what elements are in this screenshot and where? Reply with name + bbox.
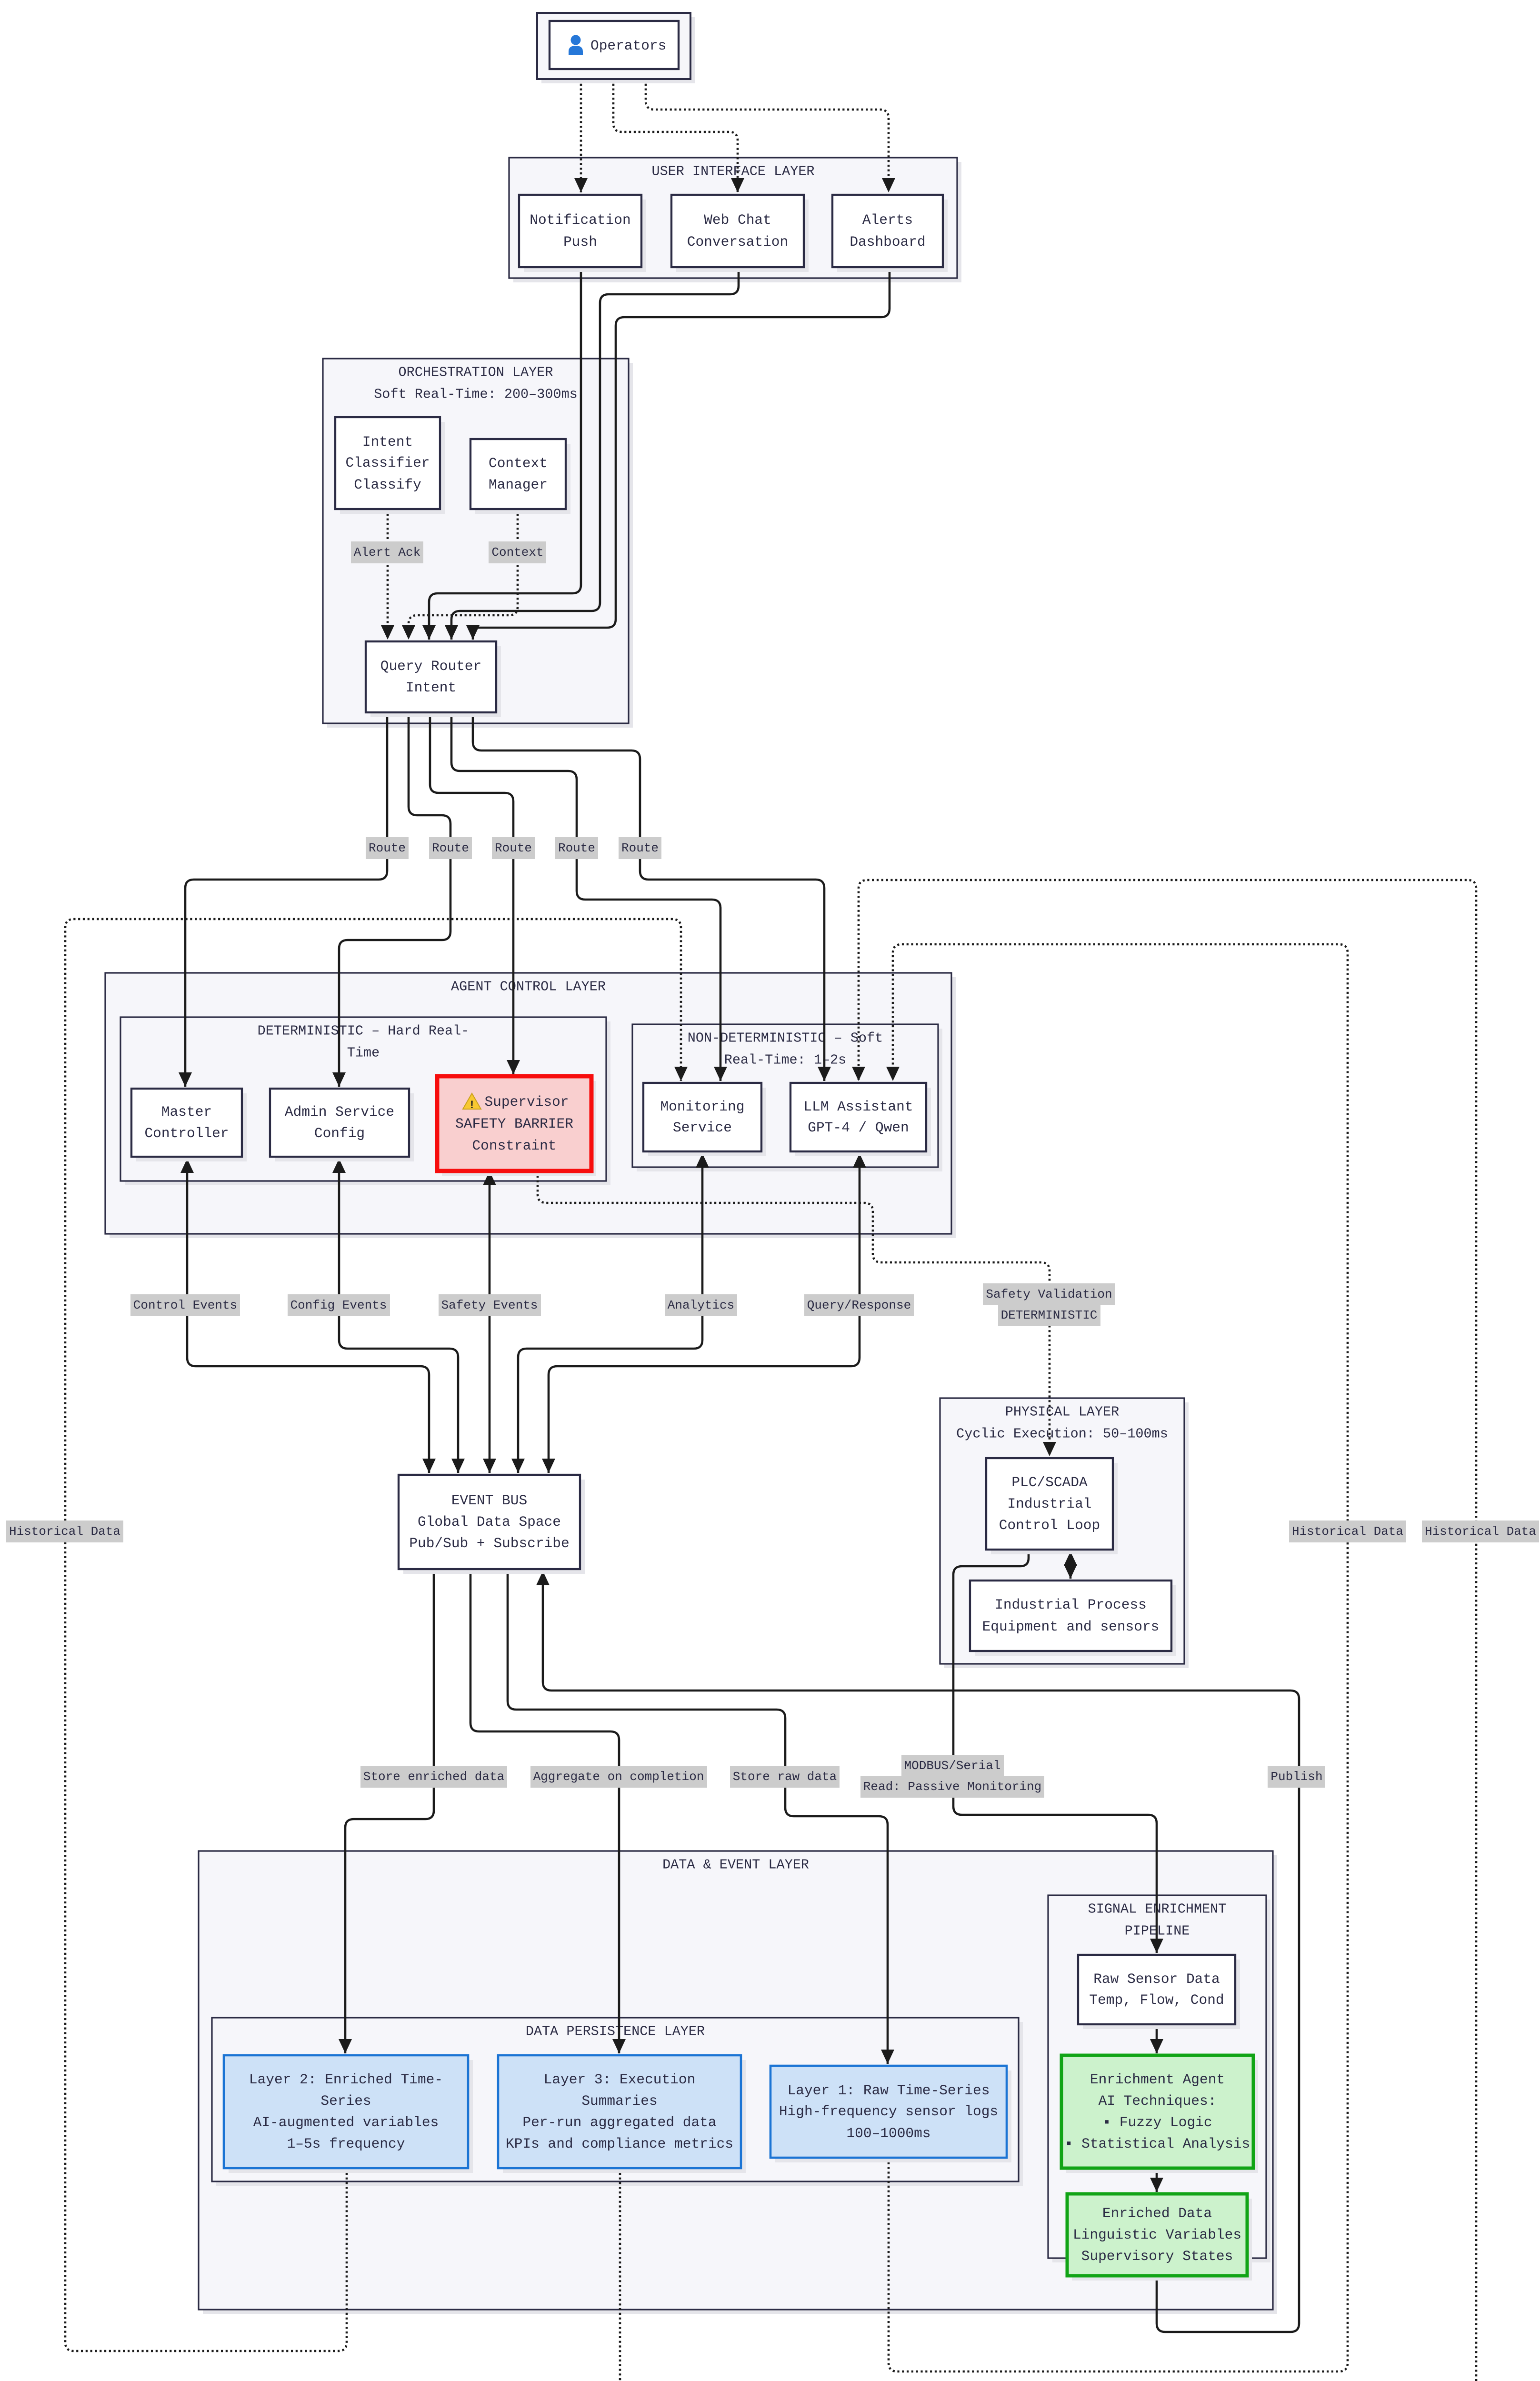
svg-text:Classify: Classify [354, 477, 421, 493]
edge master controller to event bus Control Events [180, 1159, 436, 1473]
node notification push [519, 195, 646, 272]
edge query router to admin service Route [332, 712, 450, 1087]
label Historical Data far right [1422, 1521, 1539, 1542]
data persistence layer container [212, 2018, 1023, 2186]
svg-text:Temp, Flow, Cond: Temp, Flow, Cond [1089, 1992, 1224, 2008]
node intent classifier [335, 417, 445, 514]
svg-text:DATA PERSISTENCE LAYER: DATA PERSISTENCE LAYER [526, 2024, 705, 2040]
svg-text:Enrichment Agent: Enrichment Agent [1090, 2071, 1225, 2088]
edge query router to supervisor Route [430, 712, 520, 1074]
edge admin service to event bus Config Events [332, 1159, 465, 1473]
svg-text:Safety Validation: Safety Validation [986, 1287, 1112, 1301]
svg-text:Enriched Data: Enriched Data [1102, 2205, 1212, 2221]
label Control Events [130, 1294, 240, 1316]
svg-text:Web Chat: Web Chat [704, 212, 771, 228]
svg-text:DATA & EVENT LAYER: DATA & EVENT LAYER [662, 1857, 809, 1873]
svg-text:Time: Time [347, 1045, 380, 1061]
svg-text:AI Techniques:: AI Techniques: [1099, 2093, 1217, 2109]
node enrichment agent (green) [1061, 2055, 1258, 2173]
orchestration layer container [323, 359, 633, 728]
svg-text:Intent: Intent [406, 680, 456, 696]
svg-text:Route: Route [621, 841, 659, 855]
physical layer container [940, 1398, 1189, 1668]
label Query/Response [804, 1294, 914, 1316]
svg-text:Aggregate on completion: Aggregate on completion [533, 1770, 704, 1784]
svg-text:Monitoring: Monitoring [660, 1099, 744, 1115]
node layer 2 enriched time-series (blue) [224, 2055, 473, 2173]
edge layer2 to monitoring Historical Data (dotted) [65, 919, 688, 2351]
svg-text:Alert Ack: Alert Ack [354, 545, 420, 560]
svg-text:MODBUS/Serial: MODBUS/Serial [904, 1759, 1001, 1773]
svg-text:High-frequency sensor logs: High-frequency sensor logs [779, 2103, 998, 2120]
node llm assistant [790, 1083, 931, 1156]
svg-text:Safety Events: Safety Events [441, 1298, 538, 1312]
svg-text:Historical Data: Historical Data [9, 1524, 120, 1539]
edge enriched data to event bus Publish [536, 1571, 1299, 2332]
node layer 1 raw time-series (blue) [770, 2066, 1011, 2162]
svg-text:!: ! [469, 1099, 475, 1111]
edge supervisor to plc Safety Validation (dotted) [538, 1171, 1056, 1456]
label Config Events [288, 1294, 390, 1316]
svg-text:Global Data Space: Global Data Space [418, 1514, 561, 1530]
svg-text:Series: Series [320, 2093, 371, 2109]
svg-text:NON-DETERMINISTIC – Soft: NON-DETERMINISTIC – Soft [688, 1030, 883, 1046]
svg-text:Historical Data: Historical Data [1425, 1524, 1536, 1539]
svg-text:Layer 1: Raw Time-Series: Layer 1: Raw Time-Series [788, 2082, 990, 2099]
svg-text:Push: Push [563, 234, 597, 250]
node raw sensor data [1078, 1955, 1240, 2029]
label Aggregate on completion [530, 1766, 707, 1788]
svg-text:Notification: Notification [530, 212, 630, 228]
edge plc to raw sensor data MODBUS [953, 1550, 1163, 1953]
edge query router to llm Route [473, 712, 831, 1081]
svg-text:Per-run aggregated data: Per-run aggregated data [522, 2114, 716, 2131]
svg-text:Control Events: Control Events [133, 1298, 237, 1312]
svg-text:Route: Route [432, 841, 469, 855]
svg-text:Classifier: Classifier [345, 455, 430, 471]
node enriched data (green) [1067, 2194, 1252, 2281]
edge layer3 to llm Historical Data (dotted) [620, 880, 1476, 2381]
svg-text:Supervisor: Supervisor [484, 1094, 569, 1110]
edge query router to master controller Route [179, 712, 387, 1087]
svg-text:GPT-4 / Qwen: GPT-4 / Qwen [808, 1120, 909, 1136]
svg-text:ORCHESTRATION LAYER: ORCHESTRATION LAYER [399, 365, 553, 380]
svg-text:Dashboard: Dashboard [850, 234, 925, 250]
label Store raw data [730, 1766, 840, 1788]
label Route 3 [492, 837, 535, 859]
node industrial process [970, 1581, 1176, 1656]
svg-text:Control Loop: Control Loop [999, 1517, 1100, 1533]
svg-text:PHYSICAL LAYER: PHYSICAL LAYER [1005, 1404, 1119, 1420]
svg-text:AI-augmented variables: AI-augmented variables [253, 2114, 439, 2131]
svg-text:Soft Real-Time: 200–300ms: Soft Real-Time: 200–300ms [374, 387, 578, 402]
svg-text:USER INTERFACE LAYER: USER INTERFACE LAYER [651, 164, 814, 180]
svg-text:Constraint: Constraint [472, 1138, 556, 1154]
edge operators to web chat (dotted) [613, 79, 744, 192]
node supervisor safety barrier (red) [437, 1076, 596, 1176]
node context manager [470, 439, 570, 514]
svg-text:KPIs and compliance metrics: KPIs and compliance metrics [506, 2136, 733, 2152]
svg-text:Summaries: Summaries [581, 2093, 657, 2109]
label Analytics [665, 1294, 737, 1316]
node alerts dashboard [832, 195, 948, 272]
edge llm to event bus Query/Response [542, 1153, 866, 1473]
label Safety Events [439, 1294, 541, 1316]
svg-text:Historical Data: Historical Data [1292, 1524, 1403, 1539]
svg-text:Route: Route [369, 841, 406, 855]
label Store enriched data [360, 1766, 507, 1788]
svg-text:PLC/SCADA: PLC/SCADA [1011, 1474, 1088, 1491]
svg-text:Service: Service [673, 1120, 732, 1136]
svg-text:Read: Passive Monitoring: Read: Passive Monitoring [863, 1780, 1041, 1794]
data & event layer container [199, 1851, 1277, 2314]
edge supervisor to event bus Safety Events [483, 1171, 496, 1473]
label Route 4 [555, 837, 598, 859]
svg-text:Query Router: Query Router [380, 658, 481, 674]
label Route 1 [366, 837, 409, 859]
svg-text:100–1000ms: 100–1000ms [846, 2125, 930, 2141]
node master controller [131, 1089, 247, 1161]
svg-text:Context: Context [491, 545, 543, 560]
svg-text:SAFETY BARRIER: SAFETY BARRIER [455, 1116, 573, 1132]
svg-text:Master: Master [161, 1104, 212, 1120]
node layer 3 execution summaries (blue) [498, 2055, 746, 2173]
svg-text:Industrial Process: Industrial Process [995, 1597, 1147, 1613]
svg-text:Supervisory States: Supervisory States [1081, 2248, 1233, 2264]
svg-text:Conversation: Conversation [687, 234, 788, 250]
svg-text:Config: Config [314, 1125, 365, 1141]
edge event bus to layer3 Aggregate on completion [470, 1569, 626, 2053]
svg-text:Pub/Sub + Subscribe: Pub/Sub + Subscribe [409, 1535, 569, 1551]
svg-text:Real-Time: 1–2s: Real-Time: 1–2s [724, 1052, 847, 1068]
svg-text:Route: Route [495, 841, 532, 855]
label Historical Data right [1289, 1521, 1406, 1542]
svg-text:Analytics: Analytics [668, 1298, 734, 1312]
edge operators to alerts dashboard (dotted) [646, 79, 895, 192]
agent control layer container [105, 973, 956, 1238]
svg-text:Layer 2: Enriched Time-: Layer 2: Enriched Time- [249, 2071, 443, 2088]
svg-text:▪ Fuzzy Logic: ▪ Fuzzy Logic [1102, 2114, 1212, 2131]
svg-text:LLM Assistant: LLM Assistant [803, 1099, 913, 1115]
label MODBUS/Serial Read: Passive Monitoring [860, 1755, 1044, 1798]
edge monitoring to event bus Analytics [511, 1153, 709, 1473]
edge event bus to layer1 Store raw data [508, 1569, 894, 2064]
svg-text:Raw Sensor Data: Raw Sensor Data [1093, 1971, 1220, 1987]
edge query router to monitoring Route [451, 712, 727, 1081]
svg-text:Equipment and sensors: Equipment and sensors [982, 1619, 1160, 1635]
svg-text:Store enriched data: Store enriched data [363, 1770, 504, 1784]
label Alert Ack [351, 541, 423, 563]
svg-text:Cyclic Execution: 50–100ms: Cyclic Execution: 50–100ms [956, 1426, 1168, 1442]
label Publish [1268, 1766, 1325, 1788]
svg-text:AGENT CONTROL LAYER: AGENT CONTROL LAYER [451, 979, 606, 995]
svg-text:Linguistic Variables: Linguistic Variables [1073, 2227, 1241, 2243]
svg-text:1–5s frequency: 1–5s frequency [287, 2136, 405, 2152]
svg-text:Layer 3: Execution: Layer 3: Execution [544, 2071, 696, 2088]
svg-text:DETERMINISTIC – Hard Real-: DETERMINISTIC – Hard Real- [258, 1023, 470, 1039]
non-deterministic subgraph [632, 1024, 942, 1171]
edge plc to industrial process (bidirectional) [1064, 1551, 1077, 1579]
svg-text:DETERMINISTIC: DETERMINISTIC [1001, 1308, 1098, 1322]
svg-text:Intent: Intent [362, 434, 413, 450]
svg-text:Manager: Manager [489, 477, 548, 493]
svg-text:Store raw data: Store raw data [733, 1770, 837, 1784]
edge layer1 to llm Historical Data (dotted) [886, 944, 1348, 2371]
svg-text:Controller: Controller [144, 1125, 229, 1141]
label Historical Data left [6, 1521, 123, 1542]
svg-text:Operators: Operators [590, 38, 666, 54]
operators outer box [537, 13, 695, 83]
label Route 5 [619, 837, 661, 859]
svg-text:Query/Response: Query/Response [807, 1298, 911, 1312]
svg-text:Publish: Publish [1270, 1770, 1322, 1784]
edge intent classifier to query router Alert Ack (dotted) [381, 509, 394, 640]
edge raw sensor to enrichment agent [1150, 2024, 1163, 2053]
label Route 2 [429, 837, 472, 859]
svg-text:Route: Route [558, 841, 595, 855]
svg-text:Industrial: Industrial [1007, 1496, 1091, 1512]
operators node with person icon [550, 21, 679, 69]
node web chat conversation [671, 195, 809, 272]
user interface layer container [509, 158, 961, 282]
svg-text:▪ Statistical Analysis: ▪ Statistical Analysis [1065, 2136, 1250, 2152]
label Safety Validation DETERMINISTIC [983, 1283, 1115, 1326]
deterministic subgraph [120, 1017, 610, 1185]
node query router [366, 641, 501, 717]
edge notification push to query router [422, 267, 581, 640]
edge enrichment agent to enriched data [1150, 2168, 1163, 2192]
edge web chat to query router [445, 267, 739, 640]
edge context manager to query router Context (dotted) [402, 509, 518, 640]
edge event bus to layer2 Store enriched data [339, 1569, 434, 2053]
svg-text:Admin Service: Admin Service [285, 1104, 394, 1120]
svg-text:Config Events: Config Events [290, 1298, 387, 1312]
svg-text:EVENT BUS: EVENT BUS [451, 1492, 527, 1509]
node monitoring service [643, 1083, 766, 1156]
edge operators to notification push (dotted) [574, 79, 588, 192]
node plc/scada [986, 1458, 1118, 1554]
label Context [489, 541, 546, 563]
node admin service config [270, 1089, 414, 1161]
signal enrichment pipeline container [1048, 1895, 1270, 2262]
edge alerts dashboard to query router [466, 267, 890, 640]
node event bus [399, 1475, 585, 1574]
svg-text:Alerts: Alerts [862, 212, 913, 228]
svg-text:Context: Context [489, 455, 548, 471]
